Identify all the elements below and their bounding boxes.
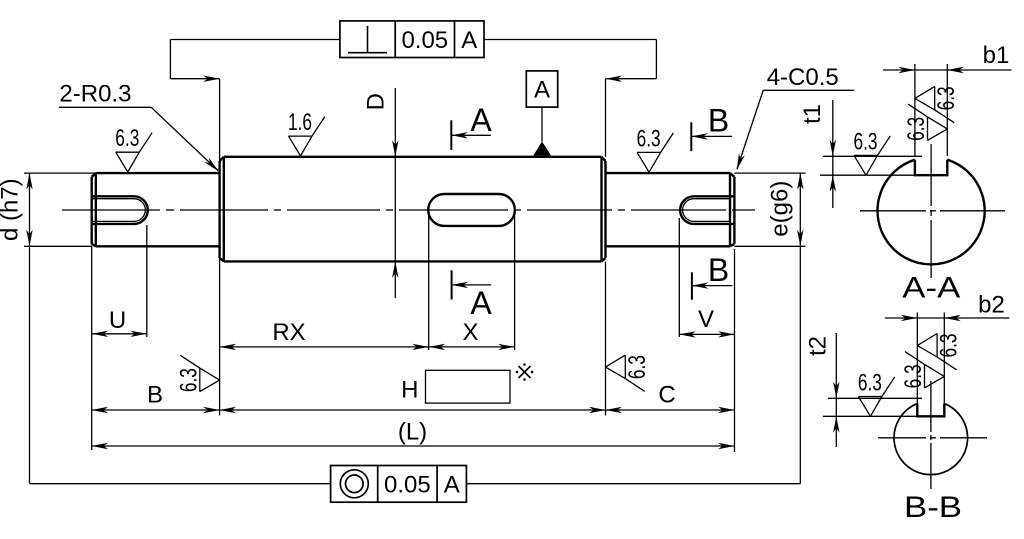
datum A symbol [526, 71, 557, 107]
concentricity leader right [466, 483, 800, 485]
svg-text:2-R0.3: 2-R0.3 [59, 81, 131, 108]
dimension b1 [914, 64, 916, 156]
svg-text:e(g6): e(g6) [767, 181, 794, 237]
dimension X [428, 214, 430, 350]
svg-text:B: B [708, 103, 729, 139]
section arrow A bottom [451, 270, 453, 299]
section B-B centerlines [878, 437, 926, 439]
surface roughness 6.3 left journal [116, 151, 140, 153]
surface roughness 6.3 at right shoulder extension [624, 355, 626, 379]
datum extension line right (big section right edge) [605, 79, 607, 157]
svg-text:X: X [462, 319, 478, 346]
dimension b2 [916, 313, 918, 406]
surface roughness 6.3 at B-B keyway left side [936, 334, 938, 358]
dimension RX [220, 346, 429, 348]
dimension U [146, 225, 148, 337]
svg-text:0.05: 0.05 [384, 471, 431, 498]
svg-text:d (h7): d (h7) [0, 178, 24, 241]
dimension d (h7) [24, 172, 96, 174]
dimension B [91, 247, 93, 451]
svg-text:6.3: 6.3 [858, 370, 882, 397]
surface roughness 6.3 at A-A keyway right side [927, 117, 929, 140]
svg-text:6.3: 6.3 [854, 128, 878, 155]
dimension D [394, 88, 396, 298]
section arrow B bottom [691, 272, 693, 299]
perpendicularity leader left [170, 39, 340, 41]
svg-text:A: A [470, 285, 492, 321]
svg-text:6.3: 6.3 [175, 368, 202, 392]
svg-text:4-C0.5: 4-C0.5 [767, 64, 839, 91]
svg-text:V: V [698, 306, 714, 333]
svg-text:A-A: A-A [902, 272, 960, 305]
section B-B circle [894, 404, 968, 475]
surface roughness 6.3 at left shoulder extension [199, 368, 201, 392]
dimension t2 [828, 397, 922, 399]
left keyway [92, 195, 134, 197]
middle keyway [428, 194, 515, 226]
surface roughness 6.3 at B-B keyway bottom [858, 396, 882, 398]
surface roughness 1.6 center section [289, 135, 313, 137]
right keyway [694, 195, 735, 197]
svg-text:6.3: 6.3 [637, 125, 661, 152]
svg-text:6.3: 6.3 [903, 117, 930, 141]
reference mark [519, 366, 531, 378]
svg-text:1.6: 1.6 [288, 109, 312, 136]
concentricity symbol [340, 470, 368, 498]
svg-text:6.3: 6.3 [115, 125, 139, 152]
section A-A circle [878, 160, 985, 265]
surface roughness 6.3 at A-A keyway bottom [854, 154, 878, 156]
svg-text:6.3: 6.3 [936, 334, 963, 358]
svg-text:t2: t2 [805, 336, 832, 356]
svg-text:0.05: 0.05 [401, 27, 448, 54]
svg-text:(L): (L) [398, 419, 427, 446]
concentricity tolerance frame [331, 466, 467, 503]
perpendicularity tolerance frame [340, 21, 484, 58]
svg-text:t1: t1 [799, 104, 826, 124]
section arrow A top [450, 120, 452, 150]
section arrow B top [690, 122, 692, 151]
dimension (L) [92, 445, 735, 447]
svg-text:6.3: 6.3 [624, 355, 651, 379]
surface roughness 6.3 at B-B keyway right side [924, 364, 926, 388]
svg-text:C: C [658, 382, 675, 409]
svg-text:B: B [147, 382, 163, 409]
svg-text:A: A [461, 27, 477, 54]
right journal outline [606, 172, 731, 174]
dimension e(g6) [734, 172, 805, 174]
svg-text:6.3: 6.3 [933, 86, 960, 110]
datum extension line left (big section left edge) [219, 79, 221, 416]
dimension t1 [823, 155, 922, 157]
svg-text:6.3: 6.3 [900, 364, 927, 388]
svg-text:A: A [534, 77, 550, 104]
surface roughness 6.3 at A-A keyway left side [934, 86, 936, 110]
svg-text:RX: RX [272, 319, 305, 346]
centerline main shaft axis [62, 209, 160, 211]
svg-text:A: A [470, 102, 492, 138]
section B-B keyway slot [917, 404, 944, 417]
dimension H with box [220, 409, 606, 411]
left journal outline [90, 177, 92, 244]
svg-text:H: H [401, 377, 418, 404]
perpendicularity leader right [484, 39, 656, 41]
section A-A keyway slot [915, 160, 947, 176]
surface roughness 6.3 right journal [637, 151, 661, 153]
svg-text:D: D [363, 93, 390, 110]
concentricity leader left [30, 483, 331, 485]
section A-A centerlines [860, 210, 926, 212]
dimension C [734, 249, 736, 452]
svg-text:B: B [708, 252, 729, 288]
svg-text:b1: b1 [983, 42, 1010, 69]
dimension V [678, 218, 680, 337]
svg-text:U: U [109, 307, 126, 334]
perpendicularity symbol [348, 52, 387, 54]
svg-text:B-B: B-B [904, 491, 962, 524]
svg-text:A: A [444, 471, 460, 498]
center section outline [218, 161, 220, 258]
svg-text:b2: b2 [978, 292, 1005, 319]
